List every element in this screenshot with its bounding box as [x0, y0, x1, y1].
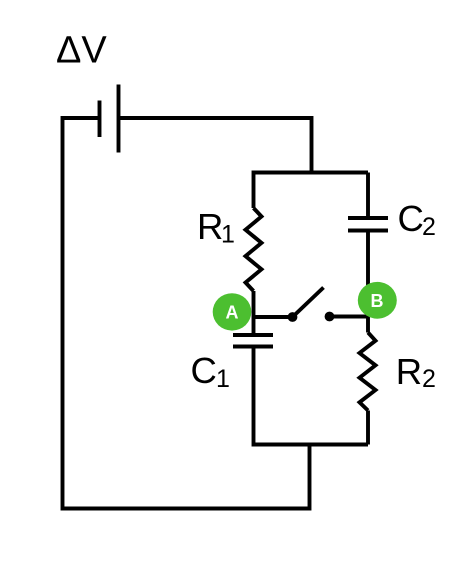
capacitor C1 top plate	[233, 333, 273, 337]
wire: outer loop left side and bottom with stub to inner bottom	[63, 118, 310, 509]
capacitor C1 bottom plate	[233, 345, 273, 349]
svg-text:R: R	[396, 351, 422, 392]
wire: node A junction to switch left contact	[254, 315, 293, 319]
svg-text:2: 2	[422, 213, 436, 241]
switch left contact dot	[288, 312, 298, 322]
wire: R2 to inner loop bottom rail	[366, 411, 370, 445]
svg-text:1: 1	[221, 220, 235, 248]
wire: C2 bottom plate through node B to resistor R2	[366, 232, 370, 333]
svg-text:C: C	[398, 198, 424, 239]
svg-text:B: B	[371, 291, 384, 311]
wire: inner loop top to capacitor C2 top plate	[366, 173, 370, 217]
wire: switch right contact to node B junction	[330, 315, 369, 319]
svg-text:2: 2	[422, 365, 436, 393]
battery V1 short plate (negative)	[98, 101, 102, 138]
wire: inner loop top rail and left drop to resistor R1	[254, 173, 369, 209]
svg-text:A: A	[226, 303, 239, 323]
svg-text:ΔV: ΔV	[56, 30, 107, 72]
capacitor C2 top plate	[348, 216, 388, 220]
node B green marker	[358, 282, 397, 319]
node A green marker	[213, 293, 252, 330]
wire: R1 to capacitor C1 top plate	[252, 291, 256, 333]
wire: C1 bottom plate down to inner loop bottom rail	[254, 348, 369, 445]
switch right contact dot	[325, 312, 335, 322]
svg-text:R: R	[197, 206, 223, 247]
resistor R1 zigzag	[246, 208, 262, 291]
wire: battery positive to top-right corner down to inner loop top	[119, 118, 312, 174]
switch blade (open)	[293, 288, 324, 318]
svg-text:C: C	[191, 350, 217, 391]
resistor R2 zigzag	[360, 333, 376, 411]
capacitor C2 bottom plate	[348, 229, 388, 233]
svg-text:1: 1	[216, 365, 230, 393]
battery V1 long plate (positive)	[117, 85, 121, 153]
